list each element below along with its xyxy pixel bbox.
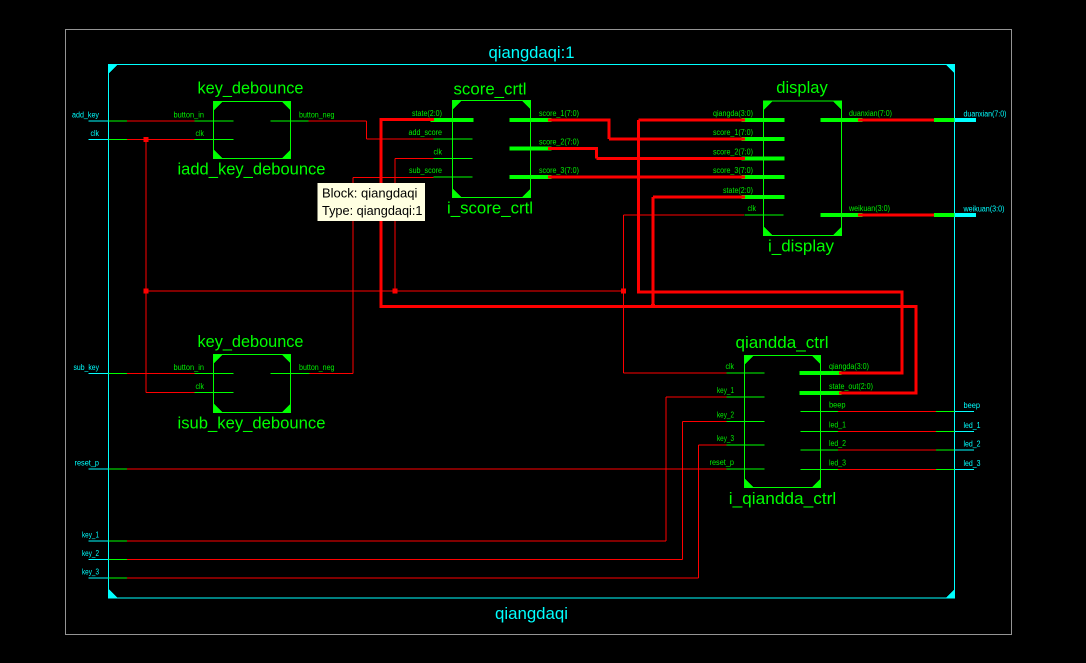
wire bus qiangda(3:0) [839, 372, 904, 375]
input port key_1 [89, 541, 109, 542]
outer sheet frame [66, 30, 1012, 635]
pin led_2 of i_qiandda_ctrl [801, 450, 840, 451]
svg-text:key_2: key_2 [82, 549, 99, 558]
pin clk of i_qiandda_ctrl [726, 373, 765, 374]
pin button_in of isub_key_debounce [195, 373, 234, 374]
wire bus score_2(7:0) [548, 147, 598, 150]
svg-text:key_2: key_2 [717, 411, 734, 420]
svg-text:weikuan(3:0): weikuan(3:0) [963, 205, 1005, 214]
svg-text:beep: beep [829, 401, 846, 410]
svg-text:key_1: key_1 [82, 531, 99, 540]
svg-text:qiangdaqi:1: qiangdaqi:1 [489, 43, 575, 62]
module isub_key_debounce (key_debounce) [214, 355, 291, 413]
svg-text:reset_p: reset_p [710, 458, 735, 467]
wire net add (button_neg to add_score) [309, 121, 367, 122]
svg-text:key_3: key_3 [717, 434, 734, 443]
svg-text:beep: beep [964, 401, 981, 410]
svg-text:clk: clk [196, 382, 205, 391]
junction clk trunk left [144, 289, 149, 294]
wire bus weikuan(3:0) to port [858, 214, 934, 217]
wire bus state(2:0) trunk [380, 118, 383, 308]
svg-text:led_2: led_2 [964, 440, 981, 449]
svg-text:reset_p: reset_p [75, 459, 100, 468]
svg-text:state_out(2:0): state_out(2:0) [829, 382, 873, 391]
pin score_2(7:0) of i_score_crtl [510, 147, 552, 151]
module i_display (display) [764, 101, 842, 236]
pin button_neg of isub_key_debounce [271, 373, 310, 374]
wire net sub (button_neg to sub_score) [310, 373, 354, 374]
pin clk of iadd_key_debounce [195, 139, 234, 140]
pin key_3 of i_qiandda_ctrl [726, 445, 765, 446]
wire net add_key [127, 121, 195, 122]
svg-text:qiangdaqi: qiangdaqi [495, 604, 568, 623]
pin beep of i_qiandda_ctrl [801, 411, 840, 412]
pin state_out(2:0) of i_qiandda_ctrl [800, 391, 842, 395]
wire clk horizontal trunk [146, 291, 624, 292]
input port sub_key [89, 373, 109, 374]
wire net led_3 [838, 469, 936, 470]
svg-text:key_3: key_3 [82, 568, 99, 577]
output port led_3 [936, 469, 955, 470]
wire net reset_p [127, 469, 727, 470]
svg-text:score_2(7:0): score_2(7:0) [713, 148, 753, 157]
svg-text:i_score_crtl: i_score_crtl [447, 199, 533, 218]
svg-text:i_qiandda_ctrl: i_qiandda_ctrl [729, 489, 837, 508]
wire clk branch to score_crtl [395, 159, 396, 292]
pin clk of i_score_crtl [434, 158, 473, 159]
svg-text:qiangda(3:0): qiangda(3:0) [829, 362, 869, 371]
pin score_1(7:0) of i_score_crtl [510, 118, 552, 122]
wire bus duanxian(7:0) to port [858, 119, 934, 122]
pin score_3(7:0) of i_display [742, 175, 785, 179]
wire net key_2 [127, 559, 683, 560]
svg-text:score_2(7:0): score_2(7:0) [539, 138, 579, 147]
svg-text:iadd_key_debounce: iadd_key_debounce [178, 160, 326, 179]
svg-text:led_1: led_1 [829, 421, 846, 430]
svg-text:state(2:0): state(2:0) [723, 186, 753, 195]
wire net beep [838, 411, 936, 412]
input port add_key [89, 121, 109, 122]
junction clk branch score [393, 289, 398, 294]
svg-text:button_neg: button_neg [299, 363, 335, 372]
svg-text:clk: clk [434, 148, 443, 157]
pin key_2 of i_qiandda_ctrl [726, 421, 765, 422]
svg-text:score_1(7:0): score_1(7:0) [539, 109, 579, 118]
pin score_2(7:0) of i_display [742, 157, 785, 161]
input port key_2 [89, 559, 109, 560]
svg-text:sub_score: sub_score [409, 166, 442, 175]
junction clk at input [144, 137, 149, 142]
svg-text:button_in: button_in [174, 363, 205, 372]
svg-text:key_1: key_1 [717, 386, 734, 395]
pin led_1 of i_qiandda_ctrl [801, 431, 840, 432]
pin key_1 of i_qiandda_ctrl [726, 397, 765, 398]
wire bus state branch to display [652, 197, 655, 307]
output port led_2 [936, 450, 955, 451]
module i_score_crtl (score_crtl) [453, 101, 531, 198]
pin duanxian(7:0) of i_display [821, 118, 863, 122]
svg-text:qiandda_ctrl: qiandda_ctrl [736, 333, 829, 352]
top-level block qiangdaqi boundary [109, 65, 955, 599]
pin button_in of iadd_key_debounce [195, 121, 234, 122]
pin reset_p of i_qiandda_ctrl [726, 469, 765, 470]
wire bus score_3(7:0) [548, 176, 745, 179]
pin score_3(7:0) of i_score_crtl [510, 175, 552, 179]
svg-text:led_1: led_1 [964, 421, 981, 430]
svg-text:score_3(7:0): score_3(7:0) [713, 166, 753, 175]
pin state(2:0) of i_display [742, 195, 785, 199]
svg-text:add_key: add_key [72, 111, 99, 120]
svg-text:led_3: led_3 [964, 459, 981, 468]
pin score_1(7:0) of i_display [742, 137, 785, 141]
svg-text:score_1(7:0): score_1(7:0) [713, 128, 753, 137]
pin button_neg of iadd_key_debounce [271, 121, 310, 122]
module iadd_key_debounce (key_debounce) [214, 102, 291, 159]
pin state(2:0) of i_score_crtl [431, 118, 474, 122]
output port weikuan(3:0) [934, 213, 955, 217]
svg-text:qiangda(3:0): qiangda(3:0) [713, 109, 753, 118]
output port beep [936, 411, 955, 412]
svg-text:button_neg: button_neg [299, 111, 335, 120]
pin led_3 of i_qiandda_ctrl [801, 469, 840, 470]
input port reset_p [89, 469, 109, 470]
wire clk vertical trunk left [146, 140, 147, 393]
svg-text:isub_key_debounce: isub_key_debounce [178, 414, 326, 433]
svg-text:sub_key: sub_key [74, 363, 100, 372]
svg-text:duanxian(7:0): duanxian(7:0) [964, 110, 1007, 119]
wire bus score_1(7:0) [548, 119, 611, 122]
pin qiangda(3:0) of i_qiandda_ctrl [800, 371, 842, 375]
boundary corner marks [109, 65, 118, 74]
svg-text:score_3(7:0): score_3(7:0) [539, 166, 579, 175]
svg-text:button_in: button_in [174, 111, 205, 120]
svg-text:clk: clk [748, 204, 757, 213]
wire net clk input segment [127, 139, 195, 140]
svg-text:Type: qiangdaqi:1: Type: qiangdaqi:1 [322, 203, 423, 218]
output port led_1 [936, 431, 955, 432]
pin qiangda(3:0) of i_display [742, 118, 785, 122]
pin add_score of i_score_crtl [434, 139, 473, 140]
pin sub_score of i_score_crtl [434, 177, 473, 178]
wire net sub_key [127, 373, 195, 374]
input port clk [89, 139, 109, 140]
svg-text:duanxian(7:0): duanxian(7:0) [849, 109, 892, 118]
wire net led_2 [838, 450, 936, 451]
pin clk of i_display [745, 215, 784, 216]
pin clk of isub_key_debounce [195, 392, 234, 393]
svg-text:clk: clk [726, 362, 735, 371]
svg-text:i_display: i_display [768, 237, 834, 256]
svg-text:led_2: led_2 [829, 439, 846, 448]
junction clk branch right [621, 289, 626, 294]
output port duanxian(7:0) [934, 118, 955, 122]
svg-text:display: display [776, 78, 828, 97]
input port key_3 [89, 578, 109, 579]
svg-text:Block: qiangdaqi: Block: qiangdaqi [322, 186, 418, 201]
svg-text:state(2:0): state(2:0) [412, 109, 442, 118]
wire net key_1 [127, 541, 666, 542]
svg-text:score_crtl: score_crtl [454, 80, 527, 99]
wire clk branch to display and qiandda_ctrl [623, 215, 624, 373]
wire net led_1 [838, 431, 936, 432]
svg-text:led_3: led_3 [829, 459, 846, 468]
module i_qiandda_ctrl (qiandda_ctrl) [745, 356, 821, 488]
wire clk to isub_key_debounce [146, 392, 195, 393]
svg-text:weikuan(3:0): weikuan(3:0) [848, 204, 890, 213]
svg-text:key_debounce: key_debounce [198, 79, 304, 98]
svg-text:clk: clk [196, 129, 205, 138]
svg-text:add_score: add_score [409, 128, 443, 137]
svg-text:clk: clk [91, 129, 100, 138]
svg-text:key_debounce: key_debounce [198, 332, 304, 351]
tooltip box [318, 183, 426, 221]
pin weikuan(3:0) of i_display [821, 213, 863, 217]
wire net key_3 [127, 578, 699, 579]
